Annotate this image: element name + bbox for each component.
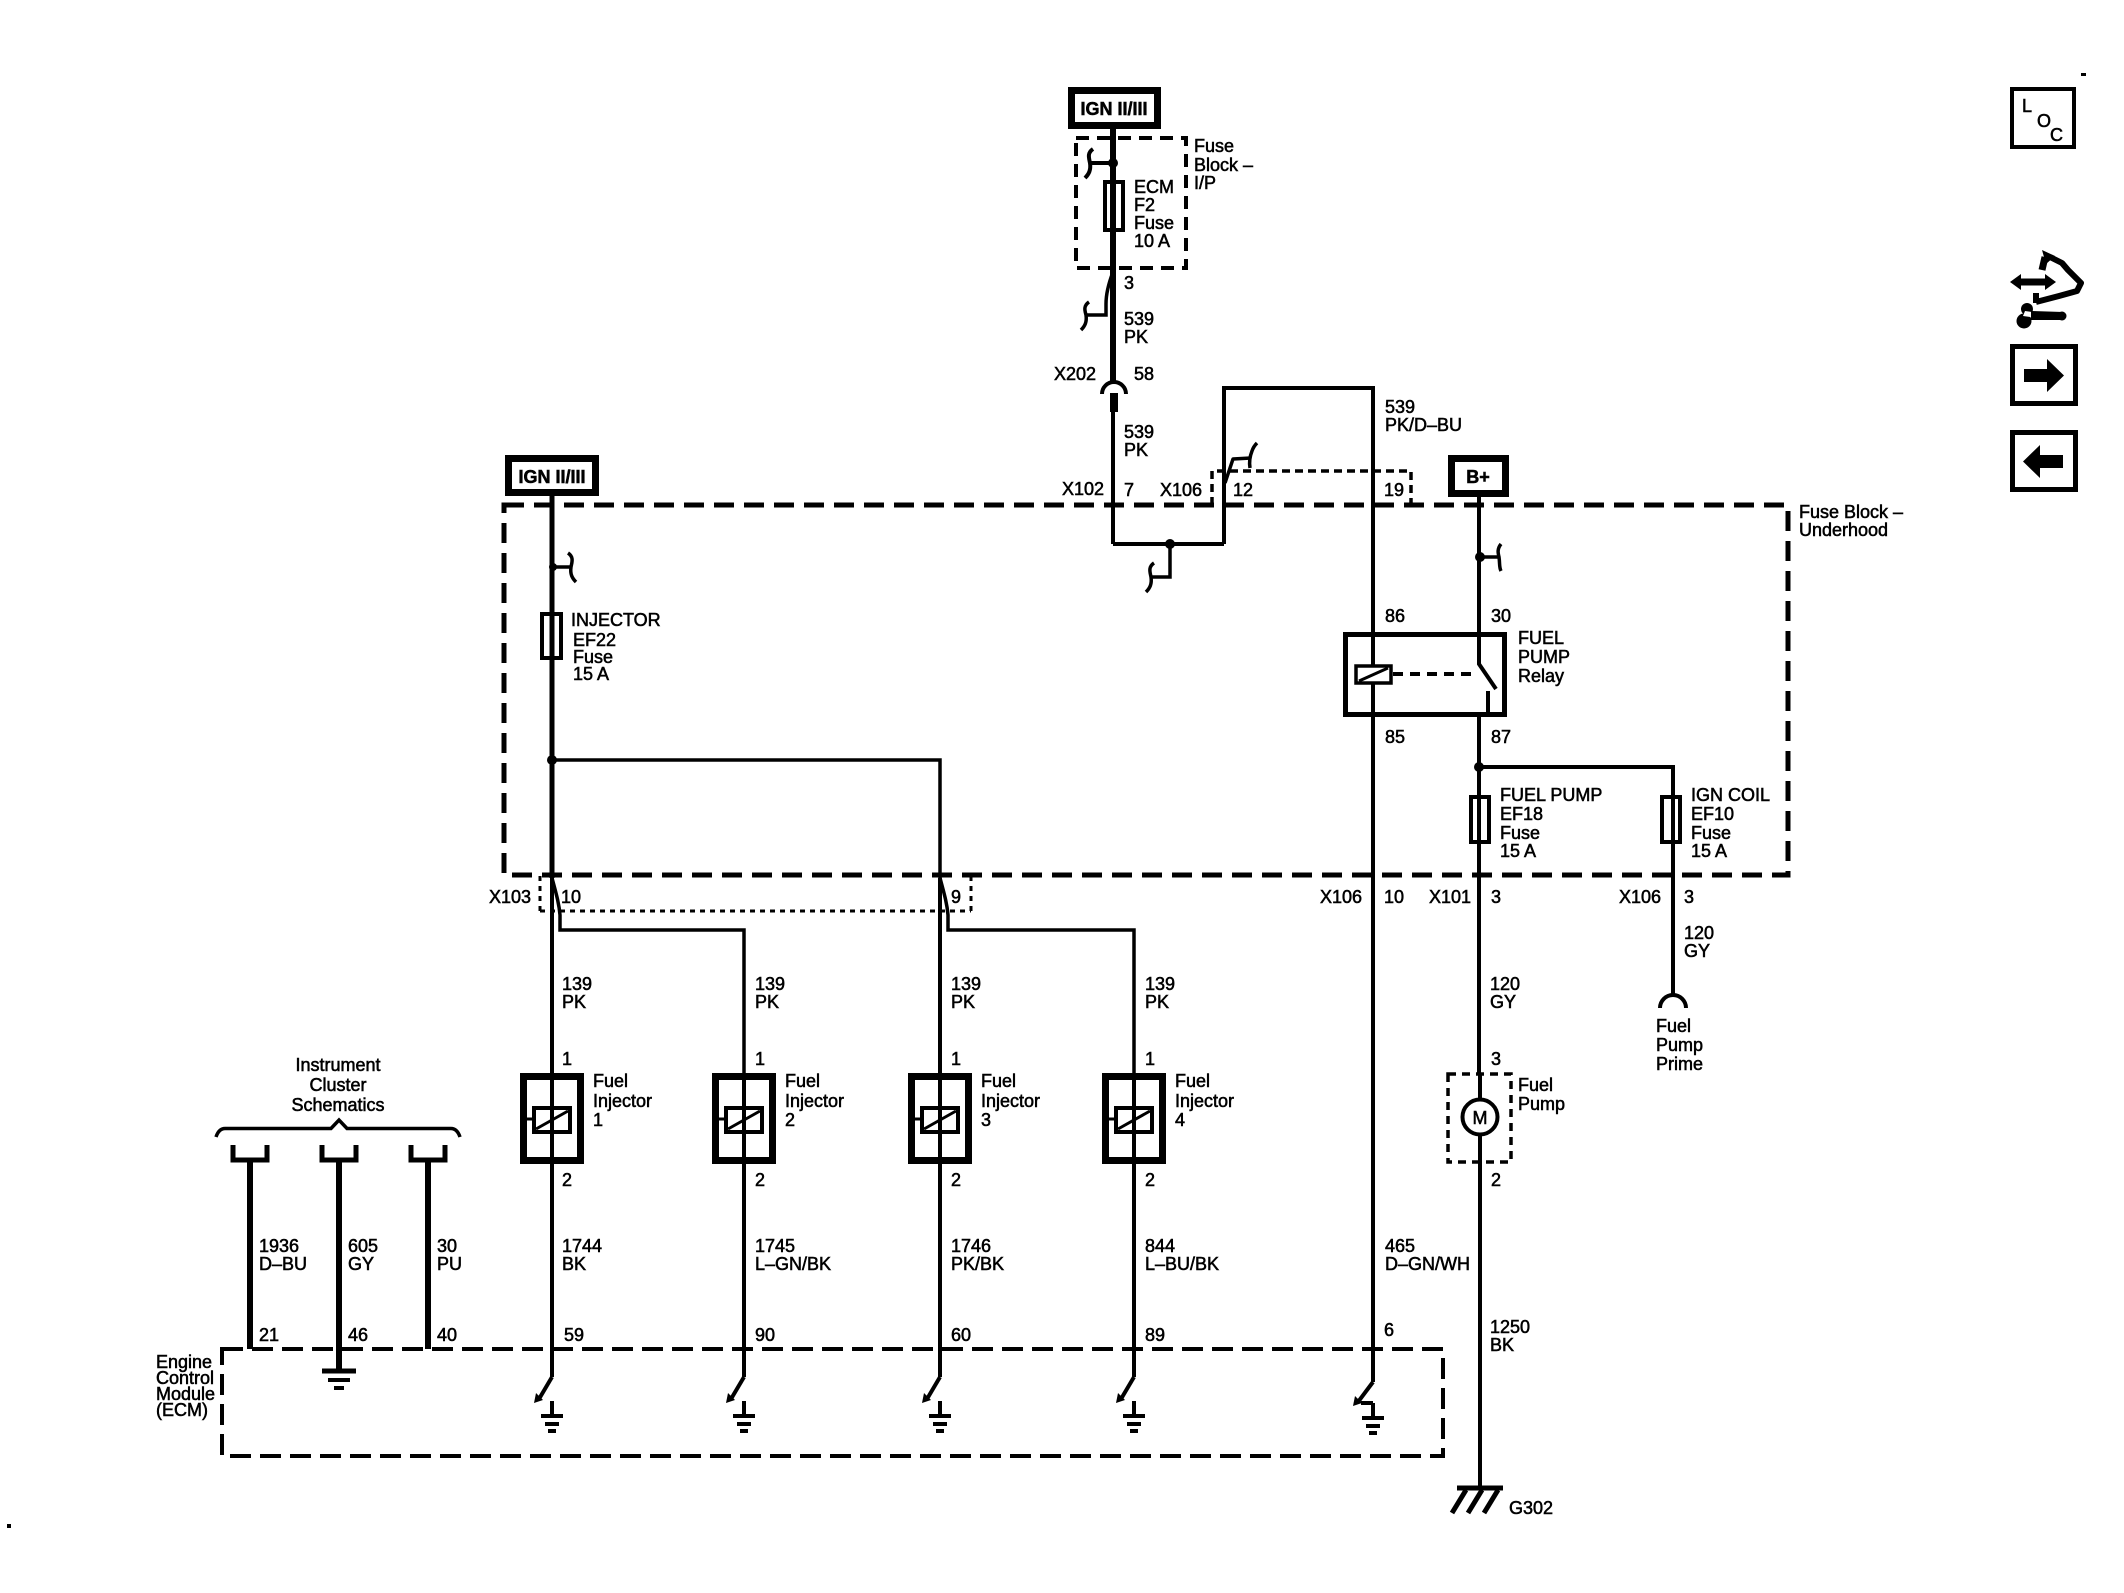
clip symbol at fuse input [1085, 149, 1118, 178]
connector box X103 pins 10/9 [489, 876, 971, 911]
svg-text:PK: PK [1145, 992, 1169, 1012]
svg-text:I/P: I/P [1194, 173, 1216, 193]
svg-text:Relay: Relay [1518, 666, 1564, 686]
nav arrow box right [2013, 347, 2076, 404]
wire fuel pump to G302 [1478, 1162, 1482, 1489]
svg-text:9: 9 [951, 887, 961, 907]
svg-text:Fuse: Fuse [1134, 213, 1174, 233]
svg-text:46: 46 [348, 1325, 368, 1345]
svg-text:86: 86 [1385, 606, 1405, 626]
wire 605 GY to ECM pin 46 [336, 1162, 342, 1371]
wire injector 1 feed [550, 878, 554, 1073]
instrument cluster connector 3 [411, 1145, 445, 1160]
svg-text:BK: BK [1490, 1335, 1514, 1355]
wire relay 87 down [1477, 717, 1481, 1074]
wire 539 PK lower [1111, 412, 1115, 544]
Fuse Block - I/P dashed box [1076, 138, 1186, 268]
svg-text:PK: PK [755, 992, 779, 1012]
svg-text:Fuse Block –: Fuse Block – [1799, 502, 1903, 522]
svg-text:90: 90 [755, 1325, 775, 1345]
svg-text:Injector: Injector [785, 1091, 844, 1111]
svg-text:844: 844 [1145, 1236, 1175, 1256]
ECM driver switch pin 60 [922, 1349, 951, 1431]
svg-text:Fuse: Fuse [1691, 823, 1731, 843]
svg-text:PK: PK [1124, 327, 1148, 347]
svg-text:1: 1 [951, 1049, 961, 1069]
svg-text:539: 539 [1124, 422, 1154, 442]
wire label 120 GY (prime) [1684, 923, 1714, 961]
svg-text:Fuse: Fuse [1194, 136, 1234, 156]
svg-text:3: 3 [1491, 1049, 1501, 1069]
wire label 605 GY [348, 1236, 378, 1274]
svg-text:60: 60 [951, 1325, 971, 1345]
svg-text:120: 120 [1684, 923, 1714, 943]
clip on B+ wire [1475, 544, 1501, 571]
wire IGN feed into fuse block [1110, 127, 1116, 381]
svg-text:Fuel: Fuel [1518, 1075, 1553, 1095]
svg-text:139: 139 [951, 974, 981, 994]
ECM driver switch pin 6 [1353, 1349, 1384, 1433]
svg-text:1: 1 [562, 1049, 572, 1069]
svg-text:3: 3 [1491, 887, 1501, 907]
connector X106 pin 10 [1320, 887, 1404, 907]
wire label 139 PK (injector 2) [755, 974, 785, 1012]
wire injector 3 to ECM pin 60 [938, 1160, 942, 1349]
jog branch at pin 9 [940, 878, 1134, 1073]
svg-text:G302: G302 [1509, 1498, 1553, 1518]
svg-text:30: 30 [437, 1236, 457, 1256]
svg-text:O: O [2037, 111, 2051, 131]
svg-text:120: 120 [1490, 974, 1520, 994]
wire label 1250 BK [1490, 1317, 1530, 1355]
wire injector 3 feed [938, 878, 942, 1073]
svg-text:X106: X106 [1320, 887, 1362, 907]
wire B+ to relay 30 [1477, 496, 1481, 632]
svg-text:2: 2 [951, 1170, 961, 1190]
svg-text:58: 58 [1134, 364, 1154, 384]
svg-text:7: 7 [1124, 480, 1134, 500]
svg-text:2: 2 [1145, 1170, 1155, 1190]
svg-text:40: 40 [437, 1325, 457, 1345]
label Engine Control Module (ECM) [156, 1352, 215, 1420]
svg-text:1250: 1250 [1490, 1317, 1530, 1337]
svg-text:139: 139 [1145, 974, 1175, 994]
svg-text:139: 139 [562, 974, 592, 994]
svg-text:Injector: Injector [981, 1091, 1040, 1111]
fuel pump dashed box [1448, 1074, 1511, 1162]
relay FUEL PUMP [1346, 606, 1571, 747]
svg-text:1745: 1745 [755, 1236, 795, 1256]
label Instrument Cluster Schematics [291, 1055, 384, 1115]
power label B+ [1452, 459, 1506, 494]
connector X106 pin 3 [1619, 887, 1694, 907]
wire 30 PU to ECM pin 40 [425, 1162, 431, 1349]
svg-text:Prime: Prime [1656, 1054, 1703, 1074]
svg-text:Fuel: Fuel [593, 1071, 628, 1091]
brace [216, 1120, 460, 1137]
svg-text:2: 2 [1491, 1170, 1501, 1190]
wire 539 PK/D-BU riser [1224, 388, 1373, 632]
clip on EF22 wire [549, 553, 576, 582]
svg-text:1936: 1936 [259, 1236, 299, 1256]
vehicle data icon (double arrow, outline, wrench) [2010, 250, 2081, 329]
svg-text:Instrument: Instrument [295, 1055, 380, 1075]
svg-text:FUEL PUMP: FUEL PUMP [1500, 785, 1602, 805]
nav arrow box left [2013, 433, 2076, 490]
svg-text:2: 2 [755, 1170, 765, 1190]
wire junction below X102 [1113, 542, 1224, 546]
svg-text:Underhood: Underhood [1799, 520, 1888, 540]
instrument cluster connector 2 [322, 1145, 356, 1160]
svg-text:Schematics: Schematics [291, 1095, 384, 1115]
svg-text:Injector: Injector [1175, 1091, 1234, 1111]
wire branch to pin 9 [552, 760, 940, 878]
svg-text:Fuel: Fuel [785, 1071, 820, 1091]
svg-text:D–BU: D–BU [259, 1254, 307, 1274]
svg-text:L: L [2022, 96, 2032, 116]
fuel pump motor [1463, 1074, 1566, 1162]
svg-text:1746: 1746 [951, 1236, 991, 1256]
svg-text:Injector: Injector [593, 1091, 652, 1111]
svg-text:L–GN/BK: L–GN/BK [755, 1254, 831, 1274]
svg-text:2: 2 [562, 1170, 572, 1190]
wire branch to EF10 [1479, 767, 1673, 995]
wire label 139 PK (injector 4) [1145, 974, 1175, 1012]
relay switch blade 30-87 [1479, 632, 1496, 717]
svg-text:15 A: 15 A [573, 664, 609, 684]
relay coil [1356, 632, 1391, 717]
svg-text:GY: GY [1684, 941, 1710, 961]
svg-text:19: 19 [1384, 480, 1404, 500]
svg-text:M: M [1473, 1108, 1488, 1128]
fuse IGN COIL EF10 15 A [1662, 785, 1770, 861]
LOC legend box [2012, 89, 2074, 147]
svg-text:X102: X102 [1062, 479, 1104, 499]
fuse INJECTOR EF22 15 A [542, 610, 661, 684]
ground inside ECM (pin 46 wire) [322, 1371, 356, 1388]
fuel injector 3 [912, 1071, 1041, 1161]
ECM driver switch pin 59 [534, 1349, 563, 1431]
wire label 139 PK (injector 1) [562, 974, 592, 1012]
svg-text:ECM: ECM [1134, 177, 1174, 197]
svg-text:INJECTOR: INJECTOR [571, 610, 661, 630]
fuel injector 2 [716, 1071, 845, 1161]
svg-text:Fuel: Fuel [981, 1071, 1016, 1091]
svg-text:IGN COIL: IGN COIL [1691, 785, 1770, 805]
svg-text:21: 21 [259, 1325, 279, 1345]
svg-text:1: 1 [755, 1049, 765, 1069]
svg-text:85: 85 [1385, 727, 1405, 747]
svg-text:C: C [2050, 125, 2063, 145]
svg-text:FUEL: FUEL [1518, 628, 1564, 648]
instrument cluster connector 1 [233, 1145, 267, 1160]
connector X101 pin 3 [1429, 887, 1501, 907]
svg-text:4: 4 [1175, 1110, 1185, 1130]
svg-text:IGN II/III: IGN II/III [518, 467, 585, 487]
wire injector 4 to ECM pin 89 [1132, 1160, 1136, 1349]
svg-text:Cluster: Cluster [309, 1075, 366, 1095]
wire injector 2 to ECM pin 90 [742, 1160, 746, 1349]
ground G302 [1452, 1488, 1553, 1518]
svg-text:D–GN/WH: D–GN/WH [1385, 1254, 1470, 1274]
svg-text:Pump: Pump [1518, 1094, 1565, 1114]
connector Fuel Pump Prime [1656, 995, 1703, 1074]
svg-text:PK: PK [562, 992, 586, 1012]
svg-text:PU: PU [437, 1254, 462, 1274]
svg-text:Fuse: Fuse [1500, 823, 1540, 843]
wire label 1936 D-BU [259, 1236, 307, 1274]
ECM driver switch pin 89 [1116, 1349, 1145, 1431]
wire relay 85 down to ECM [1371, 717, 1375, 1349]
svg-text:87: 87 [1491, 727, 1511, 747]
svg-text:Fuel: Fuel [1656, 1016, 1691, 1036]
svg-text:Fuel: Fuel [1175, 1071, 1210, 1091]
svg-text:EF10: EF10 [1691, 804, 1734, 824]
relay internal dashed link [1393, 672, 1472, 676]
svg-text:89: 89 [1145, 1325, 1165, 1345]
svg-text:30: 30 [1491, 606, 1511, 626]
svg-text:465: 465 [1385, 1236, 1415, 1256]
wire label 539 PK (upper) [1124, 309, 1154, 347]
svg-text:EF18: EF18 [1500, 804, 1543, 824]
svg-text:539: 539 [1385, 397, 1415, 417]
clip symbol on wire 539 [1081, 272, 1113, 330]
junction dot [1165, 539, 1175, 549]
svg-text:X106: X106 [1160, 480, 1202, 500]
svg-text:PUMP: PUMP [1518, 647, 1570, 667]
label Fuse Block - Underhood [1799, 502, 1903, 540]
svg-text:10 A: 10 A [1134, 231, 1170, 251]
wire label 844 L-BU/BK [1145, 1236, 1219, 1274]
svg-text:12: 12 [1233, 480, 1253, 500]
connector row X102 pin 7 [1062, 479, 1134, 500]
label Fuse Block - I/P [1194, 136, 1253, 193]
power label IGN II/III (top) [1072, 91, 1158, 126]
svg-text:B+: B+ [1466, 467, 1490, 487]
svg-text:GY: GY [1490, 992, 1516, 1012]
svg-text:3: 3 [1684, 887, 1694, 907]
ECM dashed box [222, 1349, 1443, 1456]
wire 1936 D-BU to ECM pin 21 [247, 1162, 253, 1349]
wire label 539 PK/D-BU [1385, 397, 1462, 435]
svg-text:PK: PK [951, 992, 975, 1012]
fuse ECM F2 10 A [1105, 177, 1174, 251]
svg-text:L–BU/BK: L–BU/BK [1145, 1254, 1219, 1274]
svg-text:Pump: Pump [1656, 1035, 1703, 1055]
ECM driver switch pin 90 [726, 1349, 755, 1431]
junction dot pin 87 [1474, 762, 1484, 772]
svg-text:139: 139 [755, 974, 785, 994]
wire label 465 D-GN/WH [1385, 1236, 1470, 1274]
jog branch at pin 10 [552, 878, 744, 1073]
svg-text:6: 6 [1384, 1320, 1394, 1340]
fuse FUEL PUMP EF18 15 A [1471, 785, 1602, 861]
svg-text:PK: PK [1124, 440, 1148, 460]
svg-text:X101: X101 [1429, 887, 1471, 907]
wire label 539 PK (lower) [1124, 422, 1154, 460]
svg-text:1: 1 [1145, 1049, 1155, 1069]
power label IGN II/III (left) [509, 459, 596, 493]
svg-text:PK/BK: PK/BK [951, 1254, 1004, 1274]
connector lead clip at X106 pin 12 [1225, 443, 1257, 483]
page mark top-right [2081, 73, 2086, 76]
svg-text:59: 59 [564, 1325, 584, 1345]
svg-text:1744: 1744 [562, 1236, 602, 1256]
connector box X106 pins 12/19 [1160, 471, 1411, 505]
svg-text:10: 10 [1384, 887, 1404, 907]
svg-text:1: 1 [593, 1110, 603, 1130]
svg-text:IGN II/III: IGN II/III [1080, 99, 1147, 119]
svg-text:PK/D–BU: PK/D–BU [1385, 415, 1462, 435]
clip stub into fuse block underhood [1146, 544, 1170, 592]
svg-text:F2: F2 [1134, 195, 1155, 215]
svg-text:539: 539 [1124, 309, 1154, 329]
svg-text:3: 3 [981, 1110, 991, 1130]
junction dot on EF22 wire [547, 755, 557, 765]
svg-text:BK: BK [562, 1254, 586, 1274]
page mark bottom-left [7, 1524, 11, 1528]
wire label 139 PK (injector 3) [951, 974, 981, 1012]
svg-text:X106: X106 [1619, 887, 1661, 907]
svg-text:GY: GY [348, 1254, 374, 1274]
svg-text:3: 3 [1124, 273, 1134, 293]
svg-text:15 A: 15 A [1500, 841, 1536, 861]
svg-text:15 A: 15 A [1691, 841, 1727, 861]
fuel injector 4 [1106, 1071, 1235, 1161]
svg-text:X202: X202 [1054, 364, 1096, 384]
svg-text:Block –: Block – [1194, 155, 1253, 175]
wire label 1744 BK [562, 1236, 602, 1274]
svg-text:605: 605 [348, 1236, 378, 1256]
connector X202 pin 58 [1054, 364, 1154, 412]
svg-text:10: 10 [561, 887, 581, 907]
wire label 30 PU [437, 1236, 462, 1274]
wire injector 1 to ECM pin 59 [550, 1160, 554, 1349]
svg-text:2: 2 [785, 1110, 795, 1130]
wire IGN to EF22 fuse [550, 492, 555, 878]
Fuse Block - Underhood dashed box [504, 505, 1788, 875]
wire label 1745 L-GN/BK [755, 1236, 831, 1274]
wire label 1746 PK/BK [951, 1236, 1004, 1274]
svg-text:(ECM): (ECM) [156, 1400, 208, 1420]
wire label 120 GY (fuel pump) [1490, 974, 1520, 1012]
svg-text:X103: X103 [489, 887, 531, 907]
fuel injector 1 [524, 1071, 653, 1161]
